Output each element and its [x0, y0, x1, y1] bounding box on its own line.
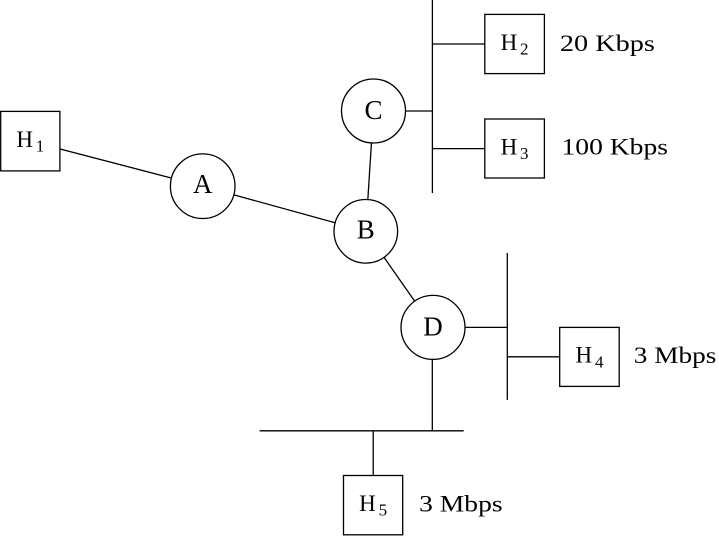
wire D-bus2 — [433, 326, 507, 328]
host H1 box — [1, 111, 60, 170]
bus2 (right vertical LAN) — [506, 253, 508, 400]
wire bus1-H3 — [432, 148, 514, 150]
svg-text:B: B — [357, 214, 375, 244]
router D circle — [401, 295, 465, 359]
svg-text:D: D — [423, 312, 443, 342]
svg-text:100 Kbps: 100 Kbps — [562, 135, 669, 160]
wire H1-A — [30, 141, 202, 186]
bus3 (bottom horizontal LAN) — [260, 430, 464, 432]
wire A-B — [203, 186, 366, 231]
host H2 box — [485, 14, 545, 73]
svg-text:3 Mbps: 3 Mbps — [419, 491, 503, 516]
wire C-bus1 — [374, 110, 433, 112]
wire B-C — [366, 111, 374, 231]
wire bus2-H4 — [507, 356, 589, 358]
svg-text:A: A — [193, 169, 213, 199]
host H4 box — [560, 327, 620, 386]
router C circle — [342, 79, 406, 143]
wire D-bus3 — [431, 327, 433, 430]
wire B-D — [366, 231, 433, 327]
host H5 box — [344, 476, 403, 535]
router A circle — [170, 154, 235, 219]
wire bus3-H5 — [372, 431, 374, 505]
bus1 (top right vertical LAN) — [431, 0, 433, 193]
wire bus1-H2 — [432, 43, 514, 45]
svg-text:20 Kbps: 20 Kbps — [560, 31, 655, 56]
svg-text:3 Mbps: 3 Mbps — [634, 343, 717, 368]
svg-text:C: C — [364, 95, 382, 125]
router B circle — [334, 200, 398, 264]
host H3 box — [485, 119, 545, 178]
